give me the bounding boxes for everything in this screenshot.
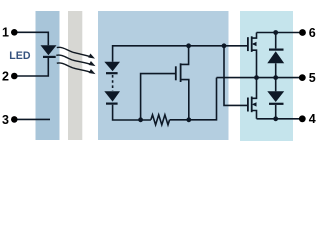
light arrowhead 1 <box>88 54 95 59</box>
wire Q2 drain up to pin6 rail <box>252 33 257 39</box>
junction top rail / gate branch <box>222 43 227 48</box>
junction top rail / Q1 drain <box>186 43 191 48</box>
FET Q1 channel bar <box>180 63 182 82</box>
svg-text:1: 1 <box>2 26 9 40</box>
wire D1 top lead <box>275 33 277 49</box>
junction pin4 rail / D2 <box>273 116 278 121</box>
wire Q1 drain to top rail <box>181 46 189 65</box>
isolation barrier strip <box>68 11 82 140</box>
svg-text:2: 2 <box>2 69 9 83</box>
svg-text:5: 5 <box>309 71 316 85</box>
pin 2 terminal dot <box>11 73 18 80</box>
diode D2 cathode bar <box>269 103 284 105</box>
receiver chip box <box>98 11 229 140</box>
junction bottom rail / gate of Q1 <box>138 117 143 122</box>
light arrow 1 <box>57 47 92 57</box>
MOSFET Q3 channel bar <box>251 97 253 113</box>
wire resistor to source junction and up to pin5 rail <box>170 78 217 120</box>
wire D1 bottom lead <box>275 63 277 77</box>
wire pin6 rail <box>257 32 303 34</box>
svg-text:4: 4 <box>309 112 316 126</box>
wire pin3 stub <box>14 118 50 120</box>
svg-text:6: 6 <box>309 26 316 40</box>
wire Q2 source down to pin5 rail <box>252 50 257 77</box>
wire photodiode top to gates (top rail) <box>113 46 248 62</box>
wire pin1 to LED anode <box>14 32 48 45</box>
MOSFET Q3 body stub <box>253 103 257 105</box>
diode D1 triangle (points up) <box>267 51 284 63</box>
junction pin5 rail / diodes <box>273 75 278 80</box>
wire photodiode bottom to bottom rail <box>113 105 151 120</box>
light arrowhead 3 <box>89 69 96 74</box>
wire Q1 source to bottom rail <box>181 80 189 120</box>
pin 1 terminal dot <box>11 29 18 36</box>
wire branch to lower MOSFET gate <box>224 46 248 106</box>
wire LED cathode to pin2 <box>14 58 48 76</box>
light arrowhead 2 <box>89 61 96 66</box>
wire Q3 source up to pin5 rail <box>252 78 257 99</box>
pin 3 terminal dot <box>11 116 18 123</box>
junction pin6 rail / D1 <box>273 30 278 35</box>
pin 5 terminal dot <box>299 74 306 81</box>
LED cathode bar <box>43 56 56 58</box>
wire Q3 drain down to pin4 rail <box>252 111 257 119</box>
wire D2 bottom lead <box>275 105 277 119</box>
photodiode PD2 cathode bar <box>106 102 118 104</box>
MOSFET Q3 body arrow <box>252 102 257 106</box>
MOSFET Q2 body stub <box>253 43 257 45</box>
wire D2 top lead <box>275 78 277 92</box>
pin 4 terminal dot <box>299 115 306 122</box>
junction pin5 rail / sources <box>254 75 259 80</box>
LED triangle <box>41 45 57 55</box>
photodiode PD1 triangle <box>104 62 120 72</box>
input-side package strip <box>36 11 60 140</box>
junction bottom rail / Q1 source <box>186 117 191 122</box>
diode D1 cathode bar <box>269 48 284 50</box>
dashed photodiode stack link <box>112 75 114 91</box>
resistor R1 <box>151 115 170 125</box>
MOSFET Q2 gate plate <box>247 37 249 51</box>
output MOSFET box <box>240 11 293 141</box>
photodiode PD2 triangle <box>104 91 120 101</box>
FET Q1 gate plate <box>175 66 177 80</box>
diode D2 triangle (points down) <box>267 91 284 102</box>
MOSFET Q3 gate plate <box>247 98 249 112</box>
light arrow 2 <box>56 55 92 65</box>
light arrow 3 <box>57 63 92 73</box>
svg-text:LED: LED <box>9 50 31 62</box>
svg-text:3: 3 <box>2 113 9 127</box>
photodiode PD1 cathode bar <box>106 72 118 74</box>
MOSFET Q2 body arrow <box>252 42 257 46</box>
wire gate branch of FET Q1 <box>141 74 176 120</box>
wire pin4 rail <box>257 118 303 120</box>
pin 6 terminal dot <box>299 29 306 36</box>
wire pin5 rail <box>217 77 303 79</box>
MOSFET Q2 channel bar <box>251 36 253 52</box>
